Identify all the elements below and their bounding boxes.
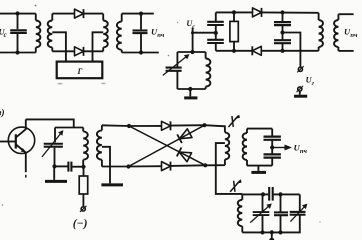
capacitor C7 plates bbox=[274, 39, 291, 41]
capacitor C7 lead top bbox=[282, 33, 284, 40]
wire top right of modulator bbox=[84, 13, 103, 15]
transformer winding left (circuit c) bbox=[82, 128, 84, 132]
wire bottom right of modulator bbox=[84, 50, 103, 52]
node lattice right top bbox=[202, 123, 206, 127]
capacitor C6 lead bottom bbox=[282, 25, 284, 32]
capacitor C4 lower lead bbox=[215, 25, 217, 33]
wire bottom rail right (circuit b) bbox=[262, 50, 319, 52]
capacitor C9 plates (series) bbox=[67, 162, 69, 172]
node junction input tank bottom bbox=[188, 87, 192, 91]
variable capacitor C3 plates bbox=[166, 67, 182, 69]
wire secondary bottom (circuit b) bbox=[338, 50, 353, 52]
node junction bottom var cap bbox=[260, 230, 264, 234]
node T junction bbox=[191, 31, 194, 34]
capacitor C7 lead bottom bbox=[282, 43, 284, 51]
wire tank to ground bbox=[257, 166, 259, 171]
variable capacitor C8 arrow bbox=[42, 131, 63, 157]
node junction winding-resistor bbox=[81, 165, 85, 169]
wire left winding centre tap bbox=[52, 32, 66, 61]
capacitor C6 plates bbox=[274, 21, 291, 23]
node junction top var cap bbox=[261, 192, 265, 196]
capacitor C2 plates bbox=[133, 29, 148, 31]
variable capacitor C15 upper lead bbox=[299, 194, 301, 211]
wire upper jog bbox=[55, 127, 83, 129]
diode D2 bottom bbox=[75, 47, 84, 56]
node junction top fixed cap bbox=[278, 192, 282, 196]
transistor Q1 collector bbox=[16, 119, 26, 137]
capacitor Uc lead top bbox=[17, 14, 19, 30]
capacitor C11 lead bottom bbox=[271, 158, 273, 166]
svg-text:г: г bbox=[312, 80, 315, 87]
wire from Uc down bbox=[192, 28, 194, 52]
transistor Q1 emitter arrow bbox=[21, 149, 25, 152]
svg-text:пч: пч bbox=[300, 148, 308, 155]
capacitor C14 plates bbox=[274, 211, 288, 213]
capacitor C4 upper lead bbox=[215, 12, 217, 21]
variable capacitor C15 lower lead bbox=[299, 215, 301, 231]
wire tank d top left bbox=[242, 193, 268, 195]
wire output tank bottom bbox=[247, 165, 272, 167]
wire collector top rail bbox=[26, 119, 74, 127]
capacitor C11 lead top bbox=[271, 148, 273, 155]
node junction bottom fixed cap bbox=[278, 230, 282, 234]
speck bbox=[319, 221, 320, 222]
wire Uc to divider bbox=[193, 32, 216, 34]
wire right winding centre tap bbox=[93, 32, 104, 61]
capacitor C10 lead bottom bbox=[271, 140, 273, 148]
transistor Q1 emitter bbox=[16, 144, 26, 172]
ground (Ug) bbox=[294, 95, 307, 98]
variable capacitor C8 lead bottom bbox=[54, 148, 56, 167]
node lattice left bottom bbox=[126, 164, 130, 168]
resistor R1 bbox=[230, 21, 238, 41]
capacitor C14 lead bottom bbox=[280, 216, 282, 233]
wire top of output tank (circuit a) bbox=[122, 13, 154, 15]
transformer winding left (modulator) bbox=[51, 14, 53, 21]
wire lattice bottom right bbox=[171, 164, 206, 167]
speck bbox=[2, 204, 4, 206]
terminal Ug upper bbox=[298, 67, 302, 71]
variable capacitor C13 plates bbox=[253, 211, 270, 213]
resistor R1 lead bottom bbox=[233, 42, 235, 51]
variable capacitor C13 arrow bbox=[250, 204, 271, 222]
wire to ground (circuit b) bbox=[189, 89, 191, 96]
node lattice left top bbox=[127, 124, 131, 128]
wire top of input tank (circuit a) bbox=[0, 13, 36, 15]
speck bbox=[57, 83, 62, 85]
wire secondary top (circuit b) bbox=[338, 13, 353, 15]
variable capacitor C3 lead bottom bbox=[176, 71, 178, 89]
wire bottom of input tank (circuit b) bbox=[177, 88, 205, 90]
capacitor C10 plates bbox=[264, 136, 281, 138]
wire lattice diagonal up bbox=[129, 125, 205, 166]
node junction C7 bottom bbox=[280, 49, 284, 53]
capacitor Uc plates bbox=[10, 29, 27, 31]
resistor R2 lead top bbox=[83, 167, 85, 176]
capacitor Uc lead bottom bbox=[17, 34, 19, 53]
diode D4 bbox=[252, 46, 261, 55]
wire terminal to ground bbox=[299, 91, 301, 94]
capacitor C11 plates bbox=[264, 153, 281, 155]
ground (circuit b input) bbox=[184, 96, 197, 99]
diode D7 lattice diagonal upper bbox=[180, 129, 193, 139]
wire secondary top to lattice bbox=[102, 124, 129, 127]
wire bottom left of modulator bbox=[52, 50, 74, 52]
node junction between C4 C5 bbox=[214, 31, 218, 35]
inductor tank coil (bottom right) bbox=[241, 194, 243, 199]
wire lattice diagonal down bbox=[129, 126, 205, 165]
variable capacitor C13 lead bottom bbox=[262, 216, 264, 233]
node junction bottom of capacitor C2 bbox=[139, 50, 143, 54]
capacitor C4 plates bbox=[207, 21, 224, 23]
svg-text:c: c bbox=[4, 32, 7, 39]
transformer winding right (circuit b output) bbox=[337, 14, 339, 20]
wire output arrow bbox=[272, 147, 285, 149]
node junction bottom centre bbox=[270, 230, 274, 234]
speck bbox=[168, 55, 170, 57]
variable capacitor C3 lead top bbox=[176, 52, 178, 67]
X mark lower bbox=[231, 181, 240, 191]
capacitor C5 plates bbox=[207, 39, 224, 41]
wire primary centre tap bbox=[216, 143, 243, 194]
variable capacitor C15 arrow bbox=[290, 204, 306, 221]
wire output tank top bbox=[247, 128, 272, 130]
capacitor C10 lead top bbox=[271, 129, 273, 136]
transistor Q1 base lead bbox=[0, 141, 16, 143]
wire top rail (circuit b) bbox=[216, 11, 253, 13]
variable capacitor C3 arrow bbox=[163, 55, 189, 76]
wire bottom of output tank (circuit a) bbox=[122, 52, 159, 54]
speck bbox=[177, 22, 178, 23]
capacitor C14 lead top bbox=[280, 194, 282, 211]
svg-text:з): з) bbox=[0, 108, 5, 119]
wire lattice top left bbox=[129, 125, 162, 127]
wire tank d top right bbox=[274, 193, 300, 195]
wire divider tap to Ug terminal bbox=[283, 33, 301, 67]
resistor R2 bbox=[79, 176, 88, 194]
terminal at edge bbox=[269, 238, 274, 240]
variable capacitor C15 plates bbox=[290, 211, 306, 213]
generator box G bbox=[57, 62, 103, 79]
wire lattice to transformer bottom bbox=[205, 164, 225, 166]
wire var cap to ground bbox=[53, 166, 55, 180]
node junction input tank top bbox=[190, 50, 194, 54]
wire top of input tank (circuit b) bbox=[177, 51, 205, 53]
capacitor C6 lead top bbox=[282, 13, 284, 22]
transistor Q1 base bar bbox=[15, 134, 17, 148]
node lattice right bottom bbox=[203, 163, 207, 167]
svg-text:Г: Г bbox=[77, 67, 83, 76]
diode D6 lattice bottom bbox=[162, 162, 171, 171]
wire secondary centre tap bbox=[102, 147, 110, 184]
wire tank d bottom bbox=[242, 231, 299, 233]
svg-text:пч: пч bbox=[157, 32, 165, 39]
speck bbox=[101, 83, 105, 85]
node junction resistor top bbox=[232, 10, 236, 14]
wire lattice to transformer top bbox=[205, 125, 225, 132]
variable capacitor C8 plates bbox=[44, 143, 63, 145]
speck bbox=[35, 5, 37, 7]
inductor output tank coil (circuit a) bbox=[121, 14, 123, 22]
terminal minus bbox=[81, 207, 85, 211]
svg-text:пч: пч bbox=[350, 32, 358, 39]
transformer winding right (circuit c) bbox=[101, 125, 103, 130]
inductor input tank coil (circuit a) bbox=[35, 14, 37, 21]
wire top rail right (circuit b) bbox=[262, 11, 319, 13]
X mark upper bbox=[229, 116, 238, 126]
resistor R1 lead top bbox=[233, 12, 235, 21]
node junction resistor bottom bbox=[232, 49, 236, 53]
capacitor C12 plates (series) bbox=[268, 187, 270, 201]
transformer winding right (circuit c output) bbox=[246, 129, 248, 133]
wire bottom of input tank (circuit a) bbox=[0, 52, 36, 54]
diode D1 top bbox=[75, 9, 84, 18]
node junction C10 C11 bbox=[270, 145, 274, 149]
capacitor C5 lower lead bbox=[215, 43, 217, 51]
svg-text:(−): (−) bbox=[73, 218, 88, 230]
node junction top of capacitor Uc bbox=[15, 11, 19, 15]
arrow head Upch bbox=[285, 145, 291, 150]
diode D5 lattice top bbox=[162, 121, 171, 130]
capacitor C2 lead bottom bbox=[140, 34, 142, 53]
transformer winding left (circuit b output) bbox=[318, 13, 320, 20]
terminal Ug lower bbox=[298, 87, 302, 91]
capacitor C5 upper lead bbox=[215, 33, 217, 40]
node junction var cap bottom bbox=[52, 164, 56, 168]
transformer winding right (modulator) bbox=[102, 14, 104, 21]
inductor input tank coil (circuit b) bbox=[205, 52, 207, 59]
wire lattice bottom left bbox=[129, 165, 162, 167]
transistor Q1 body bbox=[8, 127, 34, 153]
wire secondary bottom to lattice bbox=[102, 166, 129, 168]
capacitor C2 lead top bbox=[140, 14, 142, 30]
wire coupling cap to node bbox=[72, 166, 83, 168]
ground (emitter tank) bbox=[45, 180, 67, 183]
transformer winding left (circuit c output) bbox=[225, 132, 229, 159]
node junction C6 C7 mid bbox=[280, 30, 284, 34]
wire top left of modulator bbox=[52, 13, 74, 15]
wire stub to edge terminal bbox=[271, 232, 273, 238]
ground (output tank) bbox=[251, 171, 266, 174]
diode D3 bbox=[253, 8, 262, 17]
variable capacitor C13 lead top bbox=[262, 194, 264, 211]
node junction bottom of capacitor Uc bbox=[15, 50, 19, 54]
wire bottom rail (circuit b) bbox=[216, 50, 253, 52]
resistor R2 lead bottom bbox=[82, 194, 84, 207]
wire to coupling cap bbox=[55, 165, 68, 167]
node junction top of capacitor C2 bbox=[139, 12, 143, 16]
variable capacitor C8 lead top bbox=[54, 128, 56, 143]
ground (secondary tap) bbox=[101, 183, 123, 186]
diode D8 lattice diagonal lower bbox=[179, 152, 192, 162]
wire lattice top right bbox=[171, 124, 205, 126]
node junction C6 top bbox=[280, 10, 284, 14]
